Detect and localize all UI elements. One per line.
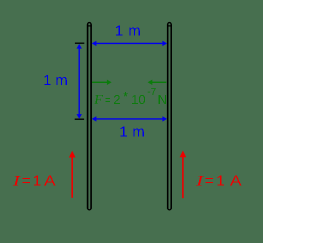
dimension arrow d-bottom (1 m between wires, bottom) xyxy=(92,116,167,121)
force arrow F-right (on wire 2, pointing left) xyxy=(148,80,167,85)
svg-text:A: A xyxy=(230,173,242,190)
svg-text:1: 1 xyxy=(119,124,127,141)
label "I = 1 A" right xyxy=(195,172,242,189)
svg-text:1: 1 xyxy=(33,173,41,190)
svg-text:A: A xyxy=(44,173,56,190)
tick mark top (left measurement) xyxy=(75,42,84,44)
svg-text:1: 1 xyxy=(115,22,123,39)
svg-text:=: = xyxy=(22,173,31,190)
label "1 m" bottom xyxy=(119,124,144,141)
label "1 m" top xyxy=(115,22,141,39)
label "F = 2 * 10^-7 N" xyxy=(93,89,167,108)
exponent "-7" xyxy=(147,87,156,98)
wire W1 (left conductor) xyxy=(87,23,92,210)
dimension arrow d-top (1 m between wires, top) xyxy=(92,41,167,46)
tick mark bottom (left measurement) xyxy=(75,118,84,120)
svg-text:m: m xyxy=(128,22,141,39)
dimension arrow d-left (1 m wire length, vertical) xyxy=(77,44,82,119)
svg-text:1: 1 xyxy=(216,173,224,190)
current arrow I1 (left, upward) xyxy=(69,151,76,198)
svg-text:10: 10 xyxy=(131,92,145,107)
label "1 m" left xyxy=(43,72,68,89)
svg-text:F: F xyxy=(93,93,103,108)
label "I = 1 A" left xyxy=(12,172,56,189)
svg-text:m: m xyxy=(132,124,145,141)
svg-text:1: 1 xyxy=(43,72,51,89)
svg-text:I: I xyxy=(195,172,204,188)
wire W2 (right conductor) xyxy=(167,23,172,210)
svg-text:m: m xyxy=(55,72,67,89)
svg-text:N: N xyxy=(158,92,167,107)
svg-text:-7: -7 xyxy=(147,87,156,98)
svg-text:2: 2 xyxy=(113,92,120,107)
svg-text:*: * xyxy=(123,89,128,104)
svg-text:=: = xyxy=(205,173,214,190)
force arrow F-left (on wire 1, pointing right) xyxy=(92,80,112,85)
svg-text:I: I xyxy=(12,172,21,188)
current arrow I2 (right, upward) xyxy=(180,151,187,199)
svg-text:=: = xyxy=(105,94,111,108)
